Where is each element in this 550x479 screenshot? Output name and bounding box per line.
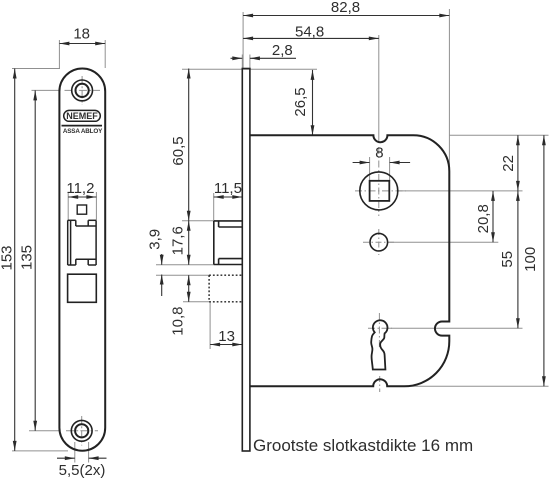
svg-text:3,9: 3,9: [147, 229, 164, 250]
svg-text:17,6: 17,6: [170, 226, 187, 255]
svg-text:Grootste slotkastdikte 16 mm: Grootste slotkastdikte 16 mm: [253, 436, 473, 455]
svg-text:60,5: 60,5: [170, 136, 187, 165]
svg-text:153: 153: [0, 245, 16, 270]
svg-text:54,8: 54,8: [295, 24, 324, 41]
svg-text:11,5: 11,5: [214, 180, 242, 197]
svg-text:11,2: 11,2: [66, 180, 94, 197]
svg-text:10,8: 10,8: [170, 306, 187, 335]
svg-text:55: 55: [499, 251, 516, 268]
svg-text:26,5: 26,5: [292, 87, 309, 116]
svg-text:13: 13: [218, 328, 235, 345]
svg-text:2,8: 2,8: [272, 42, 293, 59]
svg-text:82,8: 82,8: [331, 0, 360, 16]
svg-text:5,5(2x): 5,5(2x): [59, 462, 106, 479]
svg-text:ASSA ABLOY: ASSA ABLOY: [63, 128, 103, 135]
svg-text:100: 100: [522, 247, 539, 272]
svg-text:22: 22: [500, 155, 517, 172]
svg-text:135: 135: [19, 245, 36, 270]
svg-text:NEMEF: NEMEF: [66, 111, 98, 121]
svg-text:8: 8: [375, 145, 383, 162]
svg-text:18: 18: [73, 26, 90, 43]
svg-text:20,8: 20,8: [475, 204, 492, 233]
